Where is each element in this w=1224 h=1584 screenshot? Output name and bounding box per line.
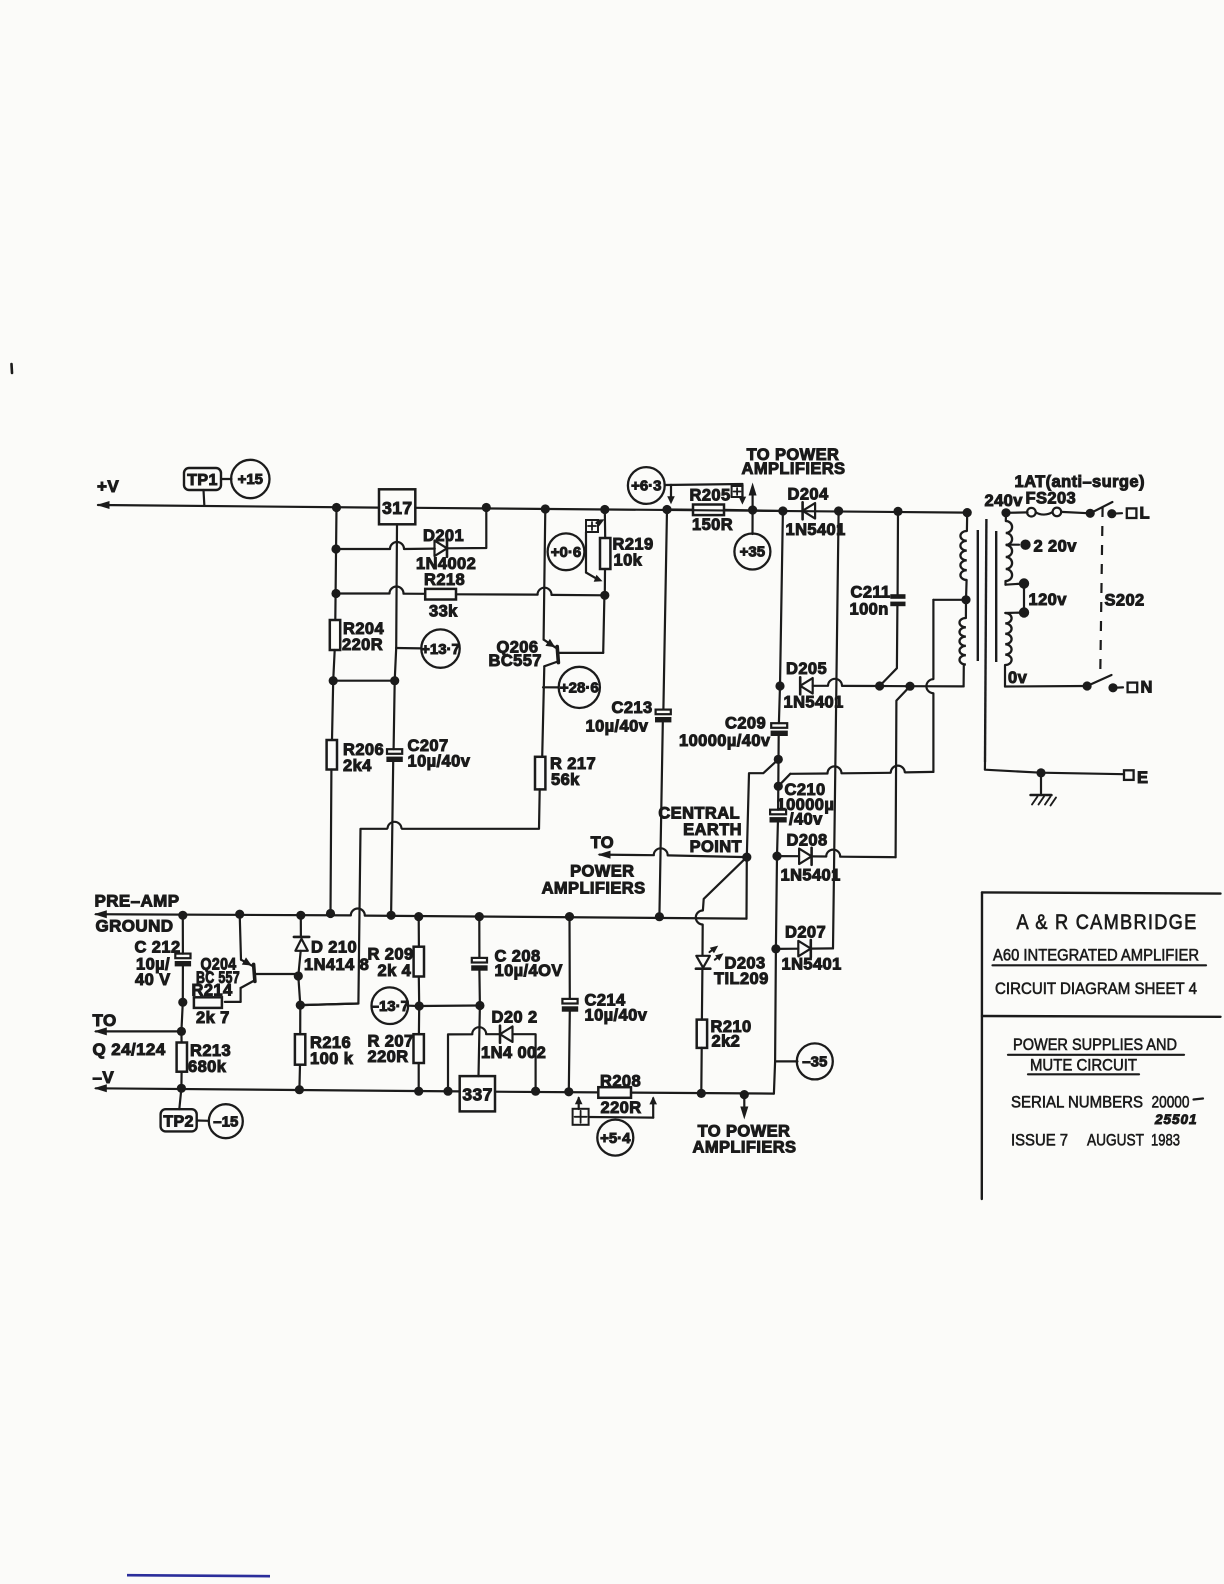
resistor R214 2k7 (194, 997, 222, 1008)
diode D208 1N5401 (799, 849, 812, 865)
test point TP1 (184, 468, 221, 490)
node +5.4 test voltage (597, 1120, 633, 1156)
svg-text:2k 4: 2k 4 (378, 962, 412, 980)
svg-text:100n: 100n (850, 601, 889, 619)
capacitor C213 10u/40v (656, 710, 671, 715)
svg-text:GROUND: GROUND (96, 917, 174, 936)
diode D204 1N5401 (803, 503, 816, 519)
regulator U317 317 (379, 489, 415, 524)
wire -V rail (94, 1084, 107, 1092)
arrow to power amplifiers (top) (751, 489, 753, 510)
svg-text:–15: –15 (213, 1113, 238, 1130)
svg-text:D208: D208 (787, 832, 828, 850)
registration line bottom (blue) (127, 1575, 270, 1576)
svg-text:0v: 0v (1008, 669, 1028, 687)
svg-text:+5·4: +5·4 (600, 1130, 631, 1147)
svg-text:+V: +V (97, 477, 119, 496)
svg-text:–13·7: –13·7 (371, 998, 409, 1015)
svg-text:33k: 33k (429, 603, 458, 621)
resistor R219 10k (604, 510, 607, 539)
svg-text:220R: 220R (368, 1048, 409, 1066)
resistor R206 2k4 (327, 740, 337, 770)
svg-text:AMPLIFIERS: AMPLIFIERS (542, 880, 646, 898)
wire C211 to D205 row (880, 606, 898, 686)
svg-text:10000µ/40v: 10000µ/40v (679, 732, 771, 750)
svg-text:C 212: C 212 (135, 939, 181, 957)
wire D207 cathode riser to +V rail column (811, 947, 833, 949)
capacitor C214 10u/40v (568, 917, 570, 999)
resistor R217 56k (535, 757, 545, 790)
svg-text:C213: C213 (612, 699, 653, 717)
wire central earth branch (747, 759, 779, 857)
wire R206 to pre-amp ground rail (329, 770, 332, 914)
svg-text:25501: 25501 (1154, 1112, 1198, 1127)
node Q204 base junction (294, 971, 303, 980)
node D208 junction (772, 852, 781, 861)
svg-text:N: N (1141, 679, 1153, 697)
node C209-C210 link (777, 734, 780, 786)
wire Q206 collector down (542, 666, 544, 757)
node +0.6 test voltage (548, 533, 585, 570)
svg-text:240v: 240v (985, 492, 1024, 510)
svg-text:150R: 150R (692, 516, 733, 534)
diode D202 1N4002 (448, 1034, 472, 1091)
svg-text:POINT: POINT (690, 838, 742, 856)
svg-text:1N4 002: 1N4 002 (481, 1044, 546, 1062)
resistor R216 100k (299, 1005, 301, 1034)
svg-text:+13·7: +13·7 (421, 641, 460, 658)
wire -13.7 node to C208 column (419, 1004, 480, 1007)
svg-text:1AT(anti–surge): 1AT(anti–surge) (1015, 473, 1145, 491)
svg-text:PRE–AMP: PRE–AMP (95, 892, 180, 911)
svg-text:2k 7: 2k 7 (196, 1009, 230, 1027)
node +13.7 test voltage (396, 647, 421, 650)
svg-text:2k2: 2k2 (712, 1033, 741, 1051)
svg-text:10µ/40v: 10µ/40v (408, 753, 471, 771)
node junctions on -V rail (177, 1084, 186, 1093)
svg-text:CIRCUIT DIAGRAM SHEET 4: CIRCUIT DIAGRAM SHEET 4 (995, 979, 1197, 998)
svg-text:R214: R214 (192, 982, 233, 1000)
node +28.6 test voltage (543, 686, 559, 688)
svg-text:C209: C209 (725, 715, 766, 733)
wire +V rail with left arrow (97, 501, 110, 509)
svg-text:L: L (1140, 505, 1150, 523)
wire R218 to Q206 base node (456, 593, 538, 595)
switch S202 neutral pole (1005, 685, 1087, 688)
resistor R207 220R (418, 1006, 421, 1034)
resistor R208 220R (598, 1087, 631, 1098)
node junctions on ground rail (178, 911, 187, 920)
svg-text:56k: 56k (551, 771, 580, 789)
svg-text:S202: S202 (1105, 592, 1145, 610)
test point TP2 (179, 1088, 181, 1109)
svg-text:BC557: BC557 (489, 652, 542, 670)
svg-text:680k: 680k (188, 1058, 227, 1076)
svg-text:2 20v: 2 20v (1034, 538, 1078, 556)
wire pre-amp ground rail (94, 910, 107, 918)
resistor R205 150R (693, 505, 724, 516)
LED D203 TIL209 (696, 956, 710, 968)
resistor R218 33k (425, 589, 456, 600)
svg-text:A & R CAMBRIDGE: A & R CAMBRIDGE (1017, 910, 1198, 934)
svg-text:2k4: 2k4 (343, 757, 372, 775)
wire node y681 cross link (333, 680, 395, 682)
wire C213 column (663, 510, 667, 710)
svg-text:TP2: TP2 (163, 1114, 194, 1131)
wire R210 to -V rail (700, 1048, 703, 1094)
regulator U337 337 (460, 1076, 495, 1111)
wire transformer centre-tap jog (896, 686, 910, 857)
svg-text:SERIAL NUMBERS: SERIAL NUMBERS (1011, 1093, 1143, 1112)
wire screen to earth (985, 762, 1124, 774)
wire R205 leads (667, 508, 693, 510)
wire +V to Q206 emitter (544, 509, 546, 640)
svg-text:120v: 120v (1029, 591, 1068, 609)
svg-text:D 210: D 210 (311, 939, 357, 957)
svg-text:R218: R218 (424, 571, 465, 589)
transformer T1 secondary winding upper (966, 513, 968, 531)
svg-text:1N5401: 1N5401 (781, 867, 841, 885)
terminal L (1127, 508, 1137, 518)
wire +V junction down to R204 (335, 508, 336, 621)
wire C208 column to 337 regulator (479, 1006, 480, 1077)
svg-text:1N5401: 1N5401 (784, 694, 844, 712)
svg-text:FS203: FS203 (1026, 490, 1077, 508)
svg-text:MUTE CIRCUIT: MUTE CIRCUIT (1030, 1056, 1137, 1075)
svg-text:TIL209: TIL209 (714, 970, 769, 988)
capacitor C212 10u/40V (182, 915, 184, 953)
resistor R209 2k4 (418, 917, 420, 947)
svg-text:/40v: /40v (789, 811, 823, 829)
transistor Q206 BC557 (557, 647, 558, 663)
svg-text:POWER SUPPLIES AND: POWER SUPPLIES AND (1013, 1035, 1177, 1054)
svg-text:D205: D205 (786, 660, 827, 678)
wire R217 bottom to mute line (402, 789, 540, 828)
svg-text:100 k: 100 k (310, 1050, 354, 1068)
wire secondary centre tap (933, 599, 966, 601)
svg-text:220R: 220R (601, 1099, 642, 1117)
wire C209 column top (780, 511, 783, 686)
node +15 test voltage (221, 478, 232, 480)
svg-text:TO: TO (93, 1011, 117, 1030)
node +35 test voltage (751, 510, 753, 534)
wire earth point to ground rail riser (745, 857, 747, 919)
wire central earth point (598, 851, 611, 859)
switch S202 mechanical link (dashed) (1100, 507, 1102, 672)
svg-text:E: E (1137, 769, 1148, 787)
svg-text:AMPLIFIERS: AMPLIFIERS (693, 1139, 797, 1157)
svg-text:40 V: 40 V (135, 971, 171, 989)
svg-text:TO: TO (591, 834, 614, 852)
svg-text:TP1: TP1 (187, 472, 218, 489)
wire 120v link (1006, 584, 1025, 585)
title block frame (982, 892, 1221, 893)
svg-text:20000: 20000 (1152, 1093, 1190, 1112)
node earth junction (1036, 768, 1045, 777)
svg-text:Q 24/124: Q 24/124 (93, 1040, 166, 1059)
node +6.3 test voltage (628, 467, 665, 504)
svg-text:337: 337 (462, 1085, 492, 1105)
diode D210 1N4148 (300, 915, 302, 937)
svg-text:1N5401: 1N5401 (782, 956, 842, 974)
svg-text:1N5401: 1N5401 (786, 521, 846, 539)
node -13.7 test voltage (372, 987, 409, 1024)
svg-text:POWER: POWER (570, 863, 634, 881)
svg-text:D204: D204 (788, 486, 829, 504)
svg-text:C211: C211 (851, 584, 891, 602)
transformer T1 primary winding upper (1001, 508, 1010, 517)
svg-text:220R: 220R (342, 636, 383, 654)
svg-text:D20 2: D20 2 (492, 1009, 538, 1027)
wire down to R206 (332, 681, 333, 740)
wire centre tap to C210 (905, 771, 933, 774)
diode D201 1N4002 (435, 541, 448, 557)
svg-text:10µ/4OV: 10µ/4OV (495, 962, 563, 980)
resistor R204 220R (330, 620, 340, 650)
wire to Q24/124 (94, 1027, 107, 1035)
svg-text:+6·3: +6·3 (631, 478, 661, 495)
svg-text:D201: D201 (423, 527, 464, 545)
wire D210 column to mute node (298, 976, 300, 1005)
capacitor C209 10000u/40v (779, 686, 780, 723)
wire D208 to riser (812, 855, 827, 857)
switch S202 live pole (1086, 509, 1095, 518)
terminal N (1128, 683, 1138, 693)
node junctions on +V rail (332, 503, 341, 512)
wire R218 row (y593.5) (336, 592, 390, 594)
transformer T1 secondary winding lower (959, 618, 965, 665)
svg-text:10µ/40v: 10µ/40v (586, 718, 649, 736)
test bracket +0.6 across R219 (586, 520, 598, 532)
resistor R213 680k (180, 1031, 182, 1042)
svg-text:D207: D207 (785, 924, 826, 942)
svg-text:A60 INTEGRATED AMPLIFIER: A60 INTEGRATED AMPLIFIER (993, 946, 1199, 965)
ground symbol (1040, 773, 1042, 794)
svg-text:317: 317 (382, 498, 412, 518)
node R214 left junction (178, 998, 187, 1007)
scan mark left edge (10, 364, 13, 373)
svg-text:1N414 8: 1N414 8 (304, 956, 369, 974)
svg-text:1983: 1983 (1151, 1131, 1180, 1150)
wire D201 to +V rail (447, 508, 486, 549)
arrow to power amplifiers (bottom) (743, 1095, 745, 1113)
capacitor C208 10u/40V (478, 917, 480, 958)
svg-text:AUGUST: AUGUST (1087, 1131, 1144, 1150)
svg-text:+0·6: +0·6 (551, 544, 581, 561)
wire D205 row to transformer (813, 685, 828, 687)
test bracket +5.4 across R208 (575, 1096, 583, 1104)
node -15 test voltage (197, 1119, 209, 1122)
node -35 test voltage (775, 1060, 797, 1062)
svg-text:EARTH: EARTH (683, 821, 742, 839)
svg-text:–35: –35 (802, 1054, 827, 1071)
terminal E (1124, 770, 1134, 780)
transistor Q204 BC557 (240, 914, 241, 960)
resistor R210 2k2 (697, 1020, 707, 1048)
svg-text:R208: R208 (600, 1073, 641, 1091)
wire R204 to node y681 (333, 650, 335, 681)
capacitor C207 10u/40v (394, 681, 395, 750)
wire 220v tap (1007, 544, 1020, 546)
svg-text:AMPLIFIERS: AMPLIFIERS (742, 460, 846, 478)
transformer T1 primary winding lower (1005, 613, 1011, 665)
svg-text:ISSUE 7: ISSUE 7 (1011, 1131, 1068, 1150)
wire -V rail corner to D207 (774, 1061, 775, 1093)
transformer T1 core (977, 530, 979, 661)
svg-text:–V: –V (93, 1068, 115, 1087)
svg-text:R 209: R 209 (368, 946, 414, 964)
wire C209 column to D207 (776, 856, 777, 949)
diode D205 1N5401 (800, 678, 813, 694)
svg-text:CENTRAL: CENTRAL (658, 805, 740, 823)
fuse FS203 1AT anti-surge (1006, 511, 1028, 514)
svg-text:10k: 10k (614, 552, 643, 570)
wire D203 to R210 (701, 969, 704, 1020)
svg-text:+15: +15 (238, 471, 263, 488)
wire earth point to D203 diagonal (703, 857, 747, 910)
svg-text:+28·6: +28·6 (560, 680, 599, 697)
test bracket +6.3 across R205 (665, 484, 743, 485)
svg-text:+35: +35 (740, 544, 765, 561)
capacitor C211 100n (896, 511, 899, 594)
wire 317 adj row (y549) (336, 548, 390, 550)
svg-text:R205: R205 (690, 487, 731, 505)
capacitor C210 10000u/40v (777, 786, 779, 810)
svg-text:10µ/40v: 10µ/40v (585, 1007, 648, 1025)
diode D207 1N5401 (798, 941, 811, 957)
